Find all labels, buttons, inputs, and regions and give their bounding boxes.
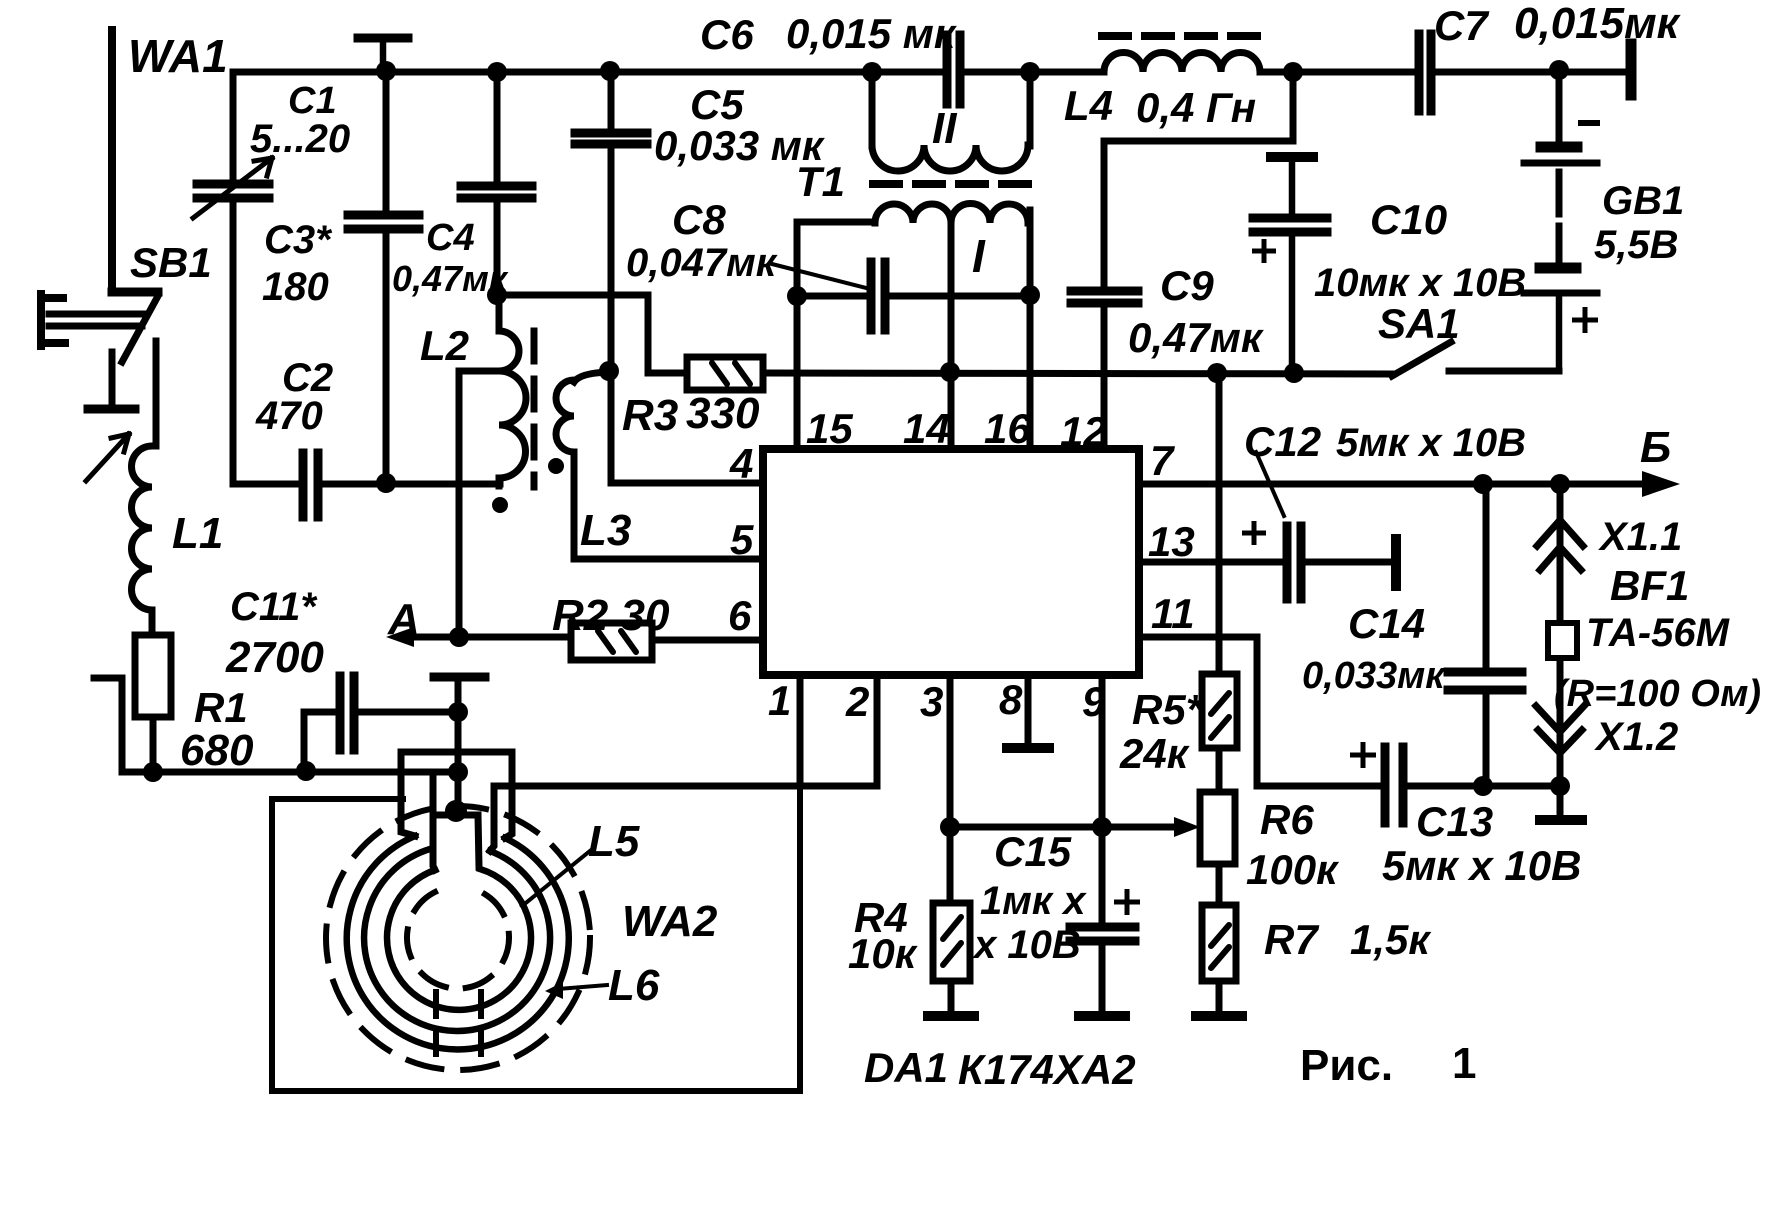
- svg-text:0,47мк: 0,47мк: [1128, 314, 1264, 361]
- ground C15: [1079, 1011, 1125, 1021]
- svg-text:2700: 2700: [225, 633, 324, 682]
- node top rail junctions: [376, 61, 396, 81]
- wire top supply rail y=72: [233, 69, 1626, 76]
- svg-text:C9: C9: [1160, 262, 1214, 309]
- svg-text:C7: C7: [1434, 2, 1489, 49]
- svg-text:11: 11: [1151, 590, 1195, 637]
- node R5 column / SA1 rail: [1207, 363, 1227, 383]
- svg-text:X1.2: X1.2: [1594, 715, 1678, 759]
- svg-text:15: 15: [806, 405, 853, 452]
- capacitor C5: [575, 133, 647, 144]
- svg-text:12: 12: [1060, 408, 1107, 455]
- ground pin 8: [1007, 743, 1049, 753]
- node pin9 wiper junction: [1092, 817, 1112, 837]
- ground R7: [1196, 1011, 1242, 1021]
- wire pin 13 row to C12: [1139, 559, 1392, 566]
- terminal bar right end of top rail: [1626, 44, 1637, 95]
- wire C5 branch vertical x=611 to pin 4: [611, 72, 763, 483]
- capacitor C12 electrolytic: [1287, 526, 1301, 599]
- svg-text:1: 1: [1452, 1039, 1476, 1088]
- transformer T1 core dashed: [873, 180, 1028, 188]
- wire WA2 feed jogs y=815: [433, 812, 478, 819]
- wire WA2 feed x=478: [478, 815, 479, 867]
- slashes R4: [943, 917, 961, 965]
- wire GB1 bottom to SA1: [1449, 368, 1559, 375]
- svg-text:L6: L6: [608, 961, 660, 1010]
- wire R1 bottom stem: [150, 717, 157, 772]
- svg-text:0,47мк: 0,47мк: [392, 258, 509, 299]
- svg-text:C4: C4: [426, 217, 475, 259]
- svg-text:ТА-56М: ТА-56М: [1586, 611, 1731, 655]
- wire GB1 top from rail: [1556, 70, 1563, 143]
- svg-text:L4: L4: [1064, 82, 1113, 129]
- svg-text:T1: T1: [796, 158, 845, 205]
- wire C11 row y=712: [304, 712, 458, 770]
- capacitor C14: [1448, 672, 1522, 690]
- capacitor C9: [1071, 291, 1138, 303]
- wire R6 wiper row y=827: [950, 824, 1184, 831]
- pointer line C8 label: [772, 264, 866, 288]
- svg-text:16: 16: [984, 405, 1031, 452]
- node C13 rail C14: [1473, 776, 1493, 796]
- wire L3 top entry from junction: [574, 372, 609, 382]
- svg-text:C1: C1: [288, 80, 337, 122]
- node C4/L2 junction: [487, 285, 507, 305]
- inductor L4 core dashed: [1102, 32, 1257, 40]
- svg-text:SB1: SB1: [130, 239, 212, 286]
- svg-text:100к: 100к: [1246, 846, 1339, 893]
- svg-text:C13: C13: [1416, 798, 1493, 845]
- wire R3 output rail to SA1: [763, 373, 1392, 374]
- svg-text:2: 2: [845, 678, 869, 725]
- wire pin 11 to C13 row: [1139, 637, 1560, 786]
- coil L3: [556, 380, 574, 452]
- resistor R6 potentiometer: [1200, 792, 1235, 864]
- wire R5 column x=1219: [1216, 372, 1223, 1012]
- svg-text:3: 3: [920, 678, 943, 725]
- wire pin 8 to ground: [1025, 675, 1032, 744]
- ground R4: [928, 1011, 974, 1021]
- plus GB1: [1572, 307, 1598, 333]
- svg-text:8: 8: [999, 676, 1023, 723]
- svg-text:10к: 10к: [848, 930, 918, 977]
- wire T1 winding I tap to pin 14: [948, 216, 955, 453]
- wire R2 to pin 6: [652, 637, 763, 644]
- wire pin 2 down and left to WA2: [490, 675, 877, 851]
- svg-text:C3*: C3*: [264, 218, 333, 262]
- coil L1: [131, 446, 152, 610]
- svg-text:SA1: SA1: [1378, 300, 1460, 347]
- slashes R5: [1211, 693, 1229, 738]
- WA2 spiral solid ring inner: [387, 869, 531, 1010]
- chassis T-bar above WA2 stem: [434, 673, 485, 682]
- node B rail C14: [1473, 474, 1493, 494]
- connector X1.1: [1537, 520, 1583, 570]
- capacitor C10 electrolytic: [1271, 152, 1313, 162]
- node C11 junction: [448, 702, 468, 722]
- svg-text:5мк х 10В: 5мк х 10В: [1382, 842, 1581, 889]
- wire BF1 branch x=1560: [1557, 484, 1564, 812]
- minus GB1: [1578, 120, 1600, 126]
- resistor R4: [933, 903, 970, 981]
- svg-text:0,015мк: 0,015мк: [1514, 0, 1682, 48]
- wire C9 vertical to pin 12: [1101, 141, 1108, 453]
- svg-text:R7: R7: [1264, 916, 1319, 963]
- plus C13: [1350, 742, 1376, 768]
- transformer T1 winding I: [875, 204, 1028, 224]
- svg-text:1мк х: 1мк х: [980, 879, 1087, 923]
- wire T1 winding II right vertical: [1027, 72, 1034, 146]
- pointer L5: [522, 851, 590, 906]
- wire WA1 antenna lead: [108, 30, 116, 292]
- wire node A to R2: [400, 634, 571, 641]
- wire T1 winding I right to pin 16: [1027, 210, 1034, 453]
- switch SB1: [112, 288, 158, 297]
- arrow R6 wiper: [1174, 817, 1200, 837]
- wire C8 row y=296: [797, 293, 1030, 300]
- svg-text:9: 9: [1082, 678, 1106, 725]
- capacitor C15 electrolytic: [1070, 927, 1135, 941]
- wire pin 15 vertical x=797 from T1 winding I left: [797, 222, 875, 453]
- svg-text:L3: L3: [580, 506, 631, 555]
- capacitor C3: [348, 215, 419, 229]
- wire left branch vertical x=233 through C1: [230, 72, 237, 484]
- svg-text:7: 7: [1150, 437, 1175, 484]
- svg-text:R5*: R5*: [1132, 686, 1204, 733]
- svg-text:180: 180: [262, 265, 329, 309]
- svg-text:5,5В: 5,5В: [1594, 223, 1679, 267]
- plus C10: [1252, 239, 1276, 263]
- wire L4 right down and over to C9: [1104, 72, 1293, 141]
- svg-text:4: 4: [729, 440, 753, 487]
- IC DA1 K174XA2 box: [763, 449, 1139, 675]
- svg-text:C14: C14: [1348, 600, 1425, 647]
- svg-text:L1: L1: [172, 509, 223, 558]
- svg-text:0,4 Гн: 0,4 Гн: [1136, 84, 1256, 131]
- resistor R2: [571, 623, 652, 660]
- resistor R1: [135, 635, 171, 717]
- inductor L4: [1104, 53, 1260, 73]
- core L2/L3 dashed: [531, 331, 538, 487]
- headphone BF1: [1548, 623, 1577, 658]
- svg-text:I: I: [972, 230, 986, 282]
- wire T1 winding II left vertical: [869, 72, 876, 146]
- wire WA2 feed x=433 from rail: [433, 772, 435, 870]
- svg-text:14: 14: [903, 405, 950, 452]
- svg-text:1: 1: [768, 677, 791, 724]
- node A junction: [449, 627, 469, 647]
- WA2 spiral solid ring outer: [347, 836, 569, 1049]
- svg-text:C10: C10: [1370, 196, 1447, 243]
- svg-text:R1: R1: [194, 684, 248, 731]
- transformer T1 winding II: [872, 145, 1028, 171]
- WA2 box: [272, 786, 800, 1091]
- node C3 bottom rail: [376, 473, 396, 493]
- svg-text:L2: L2: [420, 322, 469, 369]
- svg-text:L5: L5: [588, 817, 640, 866]
- svg-text:680: 680: [180, 726, 254, 775]
- svg-text:330: 330: [686, 389, 760, 438]
- svg-text:470: 470: [255, 394, 323, 438]
- wire C14 branch x=1486: [1483, 484, 1490, 786]
- wire WA2 bridge y=752: [401, 752, 512, 838]
- resistor R5: [1202, 674, 1237, 748]
- coil L2: [499, 295, 526, 486]
- slashes R2: [598, 631, 636, 652]
- svg-text:A: A: [387, 595, 420, 644]
- wire WA2 center stem x=458: [455, 681, 462, 814]
- svg-text:13: 13: [1148, 518, 1195, 565]
- node T1 tap / SA1 rail: [940, 362, 960, 382]
- node rail/stem junction: [448, 762, 468, 782]
- svg-text:C11*: C11*: [230, 585, 318, 629]
- PARTS_START: [193, 34, 1631, 1016]
- node R1 bottom junction: [143, 762, 163, 782]
- resistor R3: [687, 357, 763, 390]
- node pin15/T1-I junction: [787, 286, 807, 306]
- svg-text:WA2: WA2: [622, 897, 718, 946]
- svg-text:1,5к: 1,5к: [1350, 916, 1431, 963]
- capacitor C11: [340, 676, 354, 750]
- svg-text:DA1: DA1: [864, 1044, 948, 1091]
- wire SB1 lower contact stem: [109, 352, 116, 405]
- WA2 dashed ring outer L6: [326, 806, 590, 1070]
- svg-text:C6: C6: [700, 11, 754, 58]
- wire L2 tap to node A: [459, 371, 499, 637]
- svg-text:II: II: [932, 104, 957, 153]
- WA2 dashed leads L6: [436, 992, 481, 1062]
- wire R1 top stem from L1: [149, 610, 156, 635]
- wire bottom-left rail y=484 through C2: [233, 481, 500, 488]
- terminal bar after C12: [1391, 539, 1401, 586]
- svg-text:R3: R3: [622, 391, 678, 440]
- plus C15: [1114, 889, 1140, 915]
- svg-text:5...20: 5...20: [250, 117, 350, 161]
- wire pin 9 to C15: [1099, 675, 1106, 1012]
- pin number labels: [728, 405, 1195, 725]
- plus C12: [1242, 521, 1266, 545]
- svg-text:(R=100 Ом): (R=100 Ом): [1554, 673, 1761, 715]
- node C10 / SA1 rail: [1284, 363, 1304, 383]
- svg-text:BF1: BF1: [1610, 562, 1689, 609]
- pointer L6: [558, 985, 607, 989]
- capacitor C13 electrolytic: [1385, 747, 1403, 823]
- pointer L6 arrowhead: [545, 982, 563, 999]
- WA2 dashed ring inner L6: [407, 892, 509, 989]
- chassis T-bar on top rail: [358, 34, 408, 43]
- node B rail BF1: [1550, 474, 1570, 494]
- svg-text:Б: Б: [1640, 423, 1671, 472]
- svg-text:0,047мк: 0,047мк: [626, 241, 778, 285]
- svg-text:WA1: WA1: [128, 30, 228, 82]
- node C13 rail ground: [1550, 776, 1570, 796]
- svg-text:6: 6: [728, 592, 752, 639]
- capacitor C2: [303, 453, 318, 517]
- resistor R7: [1202, 905, 1236, 981]
- ground X1.2: [1540, 815, 1582, 825]
- capacitor C4: [461, 186, 532, 198]
- svg-text:C15: C15: [994, 828, 1072, 875]
- svg-text:R2 30: R2 30: [552, 591, 670, 640]
- svg-text:0,015 мк: 0,015 мк: [786, 10, 957, 57]
- wire L3 bottom to pin 5: [574, 452, 763, 559]
- node pin16/T1-I junction: [1020, 285, 1040, 305]
- wire pin 3 to R4: [950, 675, 951, 1012]
- svg-text:10мк х 10В: 10мк х 10В: [1314, 261, 1526, 305]
- connector X1.2: [1536, 706, 1584, 753]
- svg-text:24к: 24к: [1119, 730, 1190, 777]
- svg-text:х 10В: х 10В: [972, 923, 1081, 967]
- svg-text:X1.1: X1.1: [1598, 515, 1682, 559]
- node C11 left junction: [296, 761, 316, 781]
- svg-text:К174ХА2: К174ХА2: [958, 1046, 1136, 1093]
- node pin3 wiper junction: [940, 817, 960, 837]
- wire B output rail y=484 with pin 7: [1139, 481, 1650, 488]
- svg-text:C5: C5: [690, 81, 744, 128]
- svg-text:GB1: GB1: [1602, 179, 1684, 223]
- node L3 top junction: [599, 361, 619, 381]
- battery GB1: [1541, 142, 1577, 153]
- wire left rail y=772 from stub: [94, 678, 458, 772]
- wire SB1 to L1: [153, 341, 160, 446]
- WA2 spiral solid ring middle: [364, 849, 550, 1031]
- wire C4 branch vertical x=497: [494, 72, 501, 295]
- slashes R7: [1211, 925, 1229, 968]
- capacitor C6: [947, 35, 960, 104]
- svg-text:5мк х 10В: 5мк х 10В: [1336, 421, 1526, 465]
- arrow node B: [1642, 471, 1680, 497]
- capacitor C7: [1419, 34, 1431, 111]
- pointer line C12 label: [1256, 452, 1284, 516]
- capacitor C8: [871, 262, 885, 330]
- capacitor C1 variable 5...20: [197, 184, 269, 198]
- svg-text:C8: C8: [672, 196, 726, 243]
- wire C4 junction to R3: [497, 295, 687, 373]
- svg-text:R6: R6: [1260, 796, 1314, 843]
- phase dot L2: [492, 497, 508, 513]
- node WA2 feed junction: [445, 800, 467, 822]
- svg-text:C12: C12: [1244, 418, 1321, 465]
- svg-text:Рис.: Рис.: [1300, 1041, 1393, 1090]
- svg-text:0,033мк: 0,033мк: [1302, 655, 1446, 697]
- wire C3 branch vertical x=386: [383, 70, 390, 484]
- arrow node A: [386, 627, 414, 647]
- wire pin 1 down to WA2 box edge: [797, 675, 804, 786]
- slashes R3: [712, 363, 750, 384]
- variable arrow L1: [86, 434, 129, 481]
- wire SA1 switch arm: [1392, 342, 1451, 376]
- svg-text:5: 5: [730, 516, 754, 563]
- phase dot L3: [548, 458, 564, 474]
